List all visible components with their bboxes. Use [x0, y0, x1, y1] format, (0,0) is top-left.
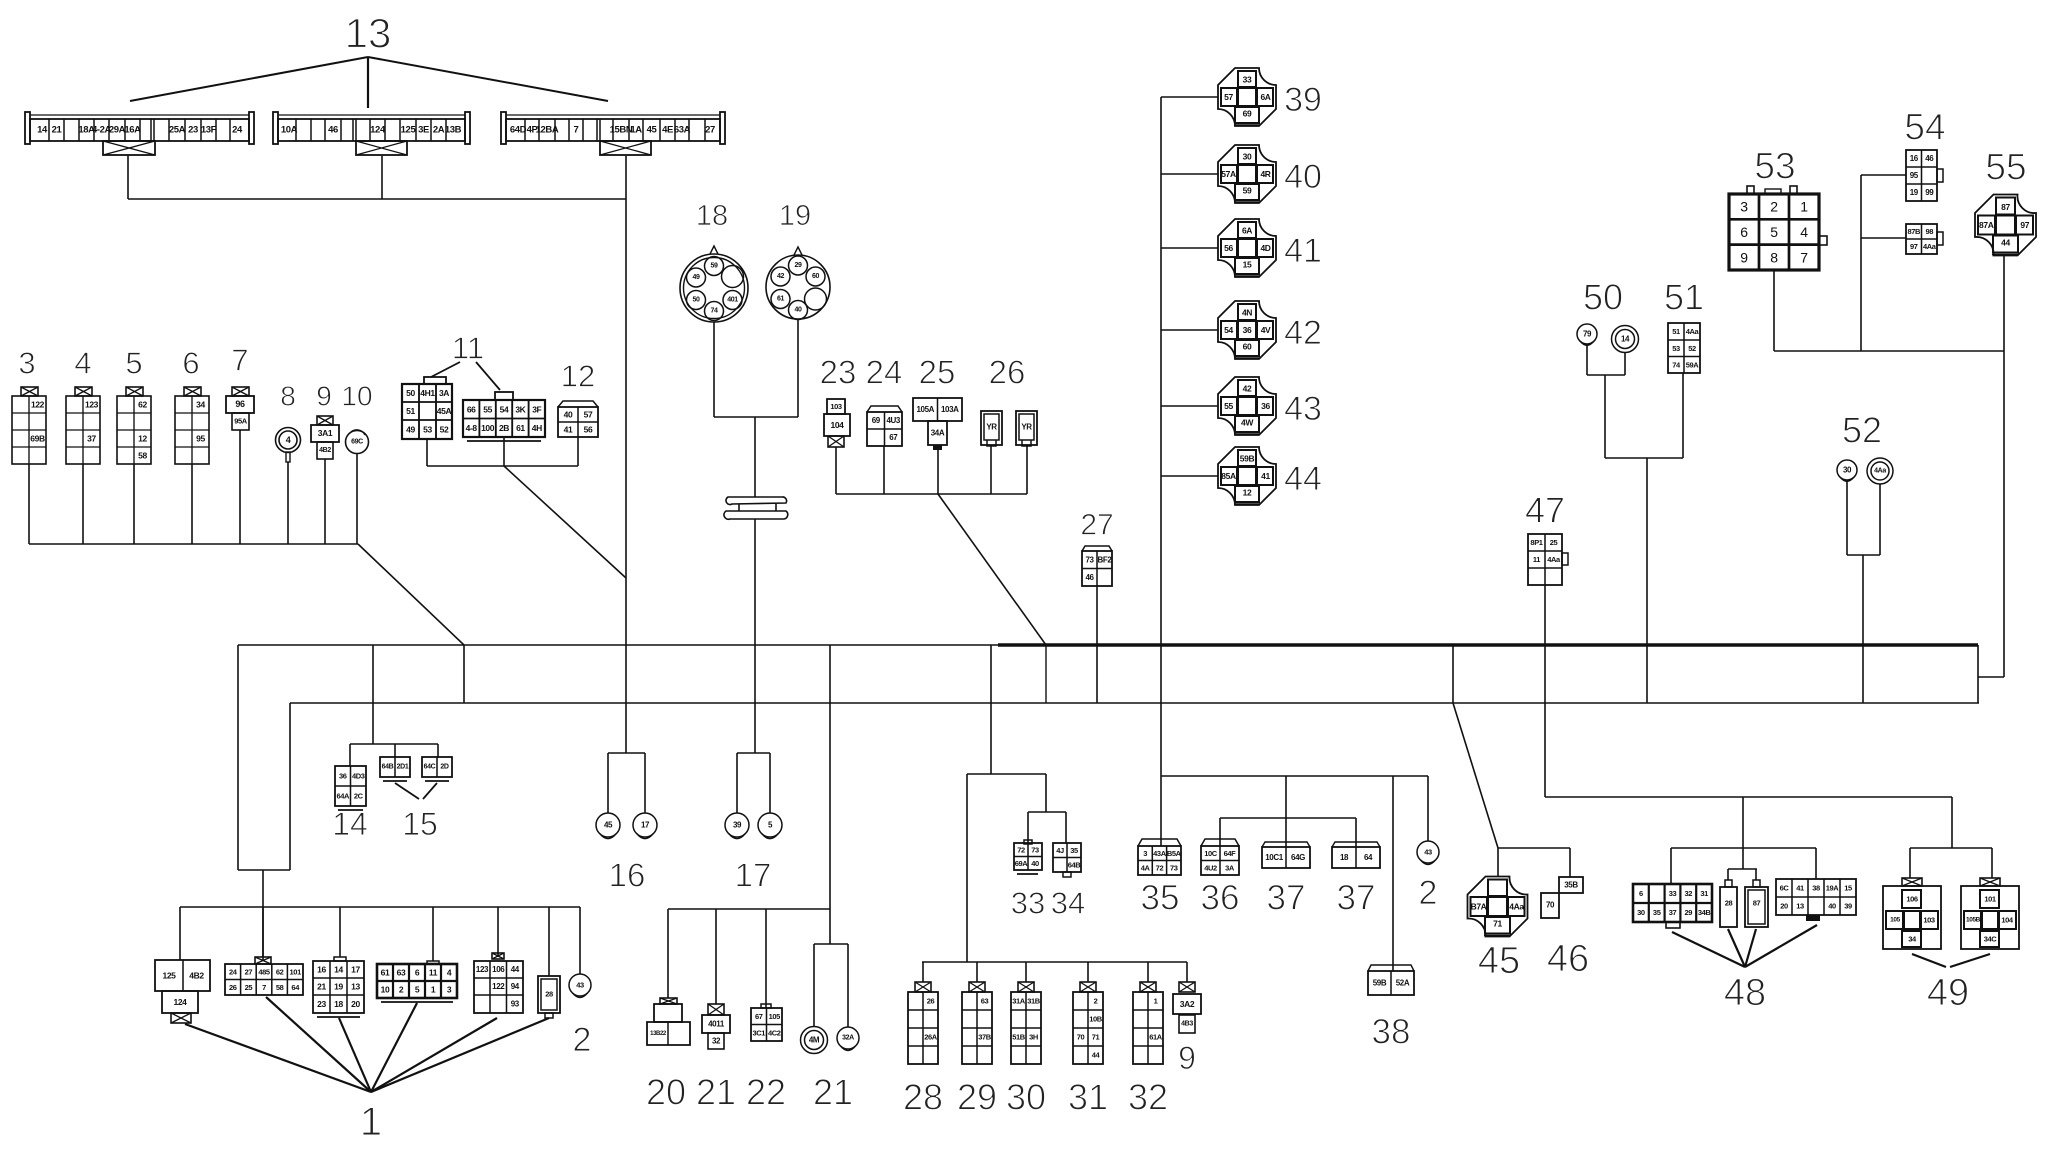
wire 55 to bus: [1978, 676, 2004, 678]
connector 33 label: [1011, 886, 1045, 921]
connector 39 label: [1284, 81, 1322, 119]
connector 9 label: [316, 381, 332, 412]
svg-text:25A: 25A: [169, 125, 186, 136]
svg-text:11: 11: [1533, 555, 1540, 564]
wire item1 feed: [262, 870, 264, 960]
wire 1d drop: [432, 907, 434, 961]
wire 13a drop: [127, 155, 129, 199]
svg-text:34C: 34C: [1984, 935, 1998, 944]
wire 50 drop: [1604, 375, 1606, 458]
wire 52 to bus B: [1862, 555, 1864, 703]
connector 1d: [377, 961, 457, 1002]
svg-text:50: 50: [1583, 277, 1623, 318]
connector 36: [1201, 839, 1239, 875]
connector 34 label: [1051, 886, 1085, 921]
svg-text:69: 69: [1243, 109, 1252, 119]
svg-text:72: 72: [1017, 845, 1025, 854]
svg-text:21: 21: [696, 1072, 736, 1113]
wire 23 drop: [835, 447, 837, 494]
connector 7: [226, 387, 254, 430]
svg-text:3A2: 3A2: [1180, 999, 1195, 1009]
wire 45 drop: [1497, 848, 1499, 877]
svg-text:36: 36: [339, 772, 347, 781]
svg-text:13: 13: [1796, 902, 1804, 911]
wire diagonal 23-26 to bus A: [938, 494, 1046, 645]
wire 28-32 feed: [966, 774, 968, 962]
connector 17 label: [735, 857, 772, 894]
connector 43 label: [1284, 390, 1322, 428]
svg-text:4: 4: [1800, 224, 1808, 240]
svg-text:23: 23: [317, 999, 326, 1009]
svg-text:47: 47: [1525, 490, 1565, 531]
svg-text:12: 12: [1243, 488, 1252, 498]
svg-text:57: 57: [584, 410, 593, 420]
connector 49b: [1961, 878, 2019, 949]
svg-text:11: 11: [429, 968, 438, 978]
svg-text:105B: 105B: [1966, 917, 1981, 924]
wire 13 fan lines: [130, 57, 608, 108]
connector 31 label: [1068, 1077, 1108, 1118]
svg-text:51: 51: [1672, 327, 1680, 336]
wire 39 stub: [1161, 96, 1218, 98]
svg-text:3A: 3A: [1225, 863, 1235, 872]
svg-text:3: 3: [447, 985, 452, 995]
svg-text:124: 124: [370, 125, 386, 136]
svg-text:5: 5: [415, 985, 420, 995]
svg-text:54: 54: [1904, 107, 1945, 148]
wire 44 stub: [1161, 475, 1218, 477]
svg-text:31: 31: [1068, 1077, 1108, 1118]
connector 9: [311, 416, 339, 459]
wire 27 drop: [1096, 586, 1098, 703]
svg-text:58: 58: [138, 451, 147, 461]
wire 36-37 feed: [1285, 776, 1287, 818]
connector 48d: [1776, 879, 1856, 921]
wire bus 23-26: [836, 493, 1027, 495]
svg-text:9: 9: [1740, 249, 1748, 265]
lamp 2 (43): [569, 974, 591, 997]
svg-text:2: 2: [1094, 997, 1098, 1006]
wire 24 drop: [883, 446, 885, 494]
wire 33-34 join: [967, 773, 1046, 775]
connector 48c: [1745, 880, 1768, 927]
svg-text:19A: 19A: [1826, 884, 1840, 893]
connector 16 label: [609, 857, 646, 894]
connector 13a fuse strip: [25, 112, 254, 155]
wire 45-46 bus: [1498, 847, 1570, 849]
lamp 16a: [596, 813, 620, 839]
svg-text:24: 24: [229, 967, 238, 976]
svg-text:51: 51: [1664, 277, 1704, 318]
svg-text:16A: 16A: [124, 125, 141, 136]
svg-text:30: 30: [1637, 908, 1645, 917]
svg-text:53: 53: [1672, 344, 1680, 353]
wire 20 drop: [667, 909, 669, 998]
connector 8: [276, 428, 301, 463]
svg-text:14: 14: [334, 965, 343, 975]
svg-text:45A: 45A: [437, 406, 452, 416]
connector 36 label: [1201, 879, 1240, 918]
connector 6 label: [182, 346, 199, 381]
wire 7 drop: [239, 430, 241, 544]
svg-text:73: 73: [1170, 863, 1178, 872]
wire 49 pointer lines: [1912, 954, 1990, 967]
svg-text:54: 54: [500, 404, 509, 414]
connector 27: [1082, 546, 1112, 586]
wire 48a drop: [1670, 848, 1672, 884]
wire diagonal 11-12 to vertical: [504, 466, 626, 578]
svg-text:37: 37: [1669, 908, 1677, 917]
wire 11-12 bus: [427, 465, 578, 467]
svg-text:14: 14: [37, 125, 48, 136]
svg-text:11: 11: [452, 331, 484, 366]
svg-text:17: 17: [641, 821, 650, 830]
wire 2 drop: [579, 907, 581, 974]
wire 54a lead: [1861, 174, 1906, 176]
wire left U join: [238, 869, 290, 871]
wire 45 diagonal: [1453, 703, 1498, 848]
svg-text:10: 10: [341, 381, 372, 412]
svg-text:52: 52: [1842, 410, 1882, 451]
wire 20-22 feed: [829, 645, 831, 944]
svg-text:31A: 31A: [1012, 997, 1026, 1006]
svg-text:58: 58: [276, 983, 284, 992]
svg-text:43: 43: [576, 981, 584, 990]
svg-text:1: 1: [360, 1100, 382, 1144]
svg-text:123: 123: [476, 965, 489, 974]
svg-text:35: 35: [1070, 846, 1078, 855]
svg-text:4C2: 4C2: [768, 1028, 781, 1037]
connector 19: [766, 247, 830, 320]
connector 41: [1218, 219, 1276, 277]
wire 33-34 split: [1028, 812, 1066, 843]
svg-text:9: 9: [1178, 1040, 1196, 1076]
svg-text:4J: 4J: [1056, 846, 1064, 855]
svg-text:46: 46: [1547, 938, 1589, 980]
svg-text:95: 95: [196, 434, 205, 444]
connector 48b: [1720, 880, 1737, 927]
wire 41 stub: [1161, 247, 1218, 249]
svg-text:69A: 69A: [1015, 859, 1029, 868]
wire 48d drop: [1815, 848, 1817, 879]
svg-text:74: 74: [1672, 360, 1681, 369]
svg-text:24: 24: [232, 125, 243, 136]
connector group 13 label: [345, 10, 392, 57]
lamp 21b-2: [837, 1027, 859, 1050]
wire 49 bus: [1910, 847, 1992, 849]
wire 50-51 join: [1605, 457, 1683, 459]
svg-text:12: 12: [138, 434, 147, 444]
svg-text:13B: 13B: [445, 125, 462, 136]
svg-text:13: 13: [351, 982, 360, 992]
svg-text:95A: 95A: [234, 417, 248, 426]
wire 10 drop: [356, 453, 358, 544]
svg-text:57A: 57A: [1221, 169, 1236, 179]
svg-text:30: 30: [1843, 466, 1852, 475]
wire 28-32 bus: [922, 961, 1187, 963]
svg-text:62: 62: [276, 967, 284, 976]
svg-text:33: 33: [1011, 886, 1045, 921]
connector 21a label: [696, 1072, 736, 1113]
svg-text:34: 34: [1051, 886, 1085, 921]
svg-text:79: 79: [1583, 330, 1592, 339]
svg-text:29: 29: [795, 262, 802, 269]
svg-text:61A: 61A: [1149, 1033, 1163, 1042]
connector 9b label: [1178, 1040, 1196, 1076]
svg-text:12BA: 12BA: [536, 125, 559, 136]
svg-text:2C: 2C: [354, 792, 364, 801]
svg-text:32: 32: [1128, 1077, 1168, 1118]
connector 37b label: [1337, 879, 1376, 918]
svg-text:73: 73: [1085, 555, 1094, 564]
svg-text:3: 3: [1740, 199, 1748, 215]
svg-text:B7A: B7A: [1471, 902, 1487, 912]
svg-text:85A: 85A: [1221, 471, 1236, 481]
connector 30: [1011, 982, 1041, 1064]
svg-text:6A: 6A: [1260, 92, 1270, 102]
connector 20: [647, 998, 690, 1045]
connector 1f: [538, 976, 560, 1018]
svg-text:32A: 32A: [842, 1035, 854, 1042]
svg-text:46: 46: [1925, 154, 1934, 163]
svg-text:100: 100: [481, 423, 495, 433]
wire bus items 3-10: [29, 543, 358, 545]
wire 21a drop: [715, 909, 717, 1004]
connector 11 label: [452, 331, 484, 366]
wire 46 drop: [1569, 848, 1571, 877]
svg-text:48: 48: [1724, 972, 1766, 1014]
connector 48 label: [1724, 972, 1766, 1014]
connector 4 label: [74, 346, 91, 381]
svg-text:43: 43: [1284, 390, 1322, 428]
svg-text:26: 26: [989, 354, 1026, 391]
svg-text:4Aa: 4Aa: [1923, 242, 1937, 251]
svg-text:1: 1: [1800, 199, 1808, 215]
svg-text:13B22: 13B22: [650, 1031, 667, 1037]
svg-text:122: 122: [492, 982, 505, 991]
svg-text:99: 99: [1925, 188, 1934, 197]
svg-text:4: 4: [447, 968, 452, 978]
wire 26b drop: [1026, 446, 1028, 494]
svg-text:3H: 3H: [1029, 1033, 1038, 1042]
wire 48 fan: [1672, 925, 1817, 967]
svg-text:4Aa: 4Aa: [1686, 327, 1700, 336]
wire 5 drop: [133, 464, 135, 544]
svg-text:54: 54: [1224, 325, 1233, 335]
connector 42: [1218, 301, 1276, 359]
wire 35-38 bus: [1161, 775, 1428, 777]
wire junction vertical at 1046: [1045, 645, 1047, 703]
connector 22 label: [746, 1072, 786, 1113]
svg-text:57: 57: [1224, 92, 1233, 102]
svg-text:5: 5: [125, 346, 142, 381]
svg-text:2D1: 2D1: [397, 764, 409, 771]
svg-text:37: 37: [87, 434, 96, 444]
connector 23 label: [820, 354, 857, 391]
svg-text:45: 45: [604, 821, 613, 830]
connector 11b: [463, 392, 545, 441]
svg-text:26: 26: [229, 983, 237, 992]
wire 37a drop: [1285, 818, 1287, 847]
svg-text:44: 44: [1284, 460, 1322, 498]
svg-text:15: 15: [402, 806, 438, 842]
connector 26a: [981, 411, 1002, 446]
wire 40 stub: [1161, 173, 1218, 175]
svg-text:71: 71: [1493, 919, 1502, 929]
svg-text:93: 93: [511, 1000, 520, 1009]
svg-text:55: 55: [1224, 401, 1233, 411]
wire 48 bus: [1671, 847, 1816, 849]
connector 13c fuse strip: [501, 112, 725, 155]
wire 26a drop: [990, 446, 992, 494]
svg-text:18: 18: [696, 200, 728, 232]
svg-text:103: 103: [830, 402, 842, 411]
connector 28 label: [903, 1077, 943, 1118]
connector 7 label: [231, 343, 248, 378]
connector 19 label: [779, 200, 811, 232]
svg-text:40: 40: [1284, 158, 1322, 196]
svg-text:4H1: 4H1: [420, 388, 435, 398]
svg-text:15: 15: [1844, 884, 1852, 893]
svg-text:4Aa: 4Aa: [1547, 555, 1561, 564]
svg-text:32: 32: [1685, 889, 1693, 898]
svg-text:4H: 4H: [532, 423, 542, 433]
svg-text:36: 36: [1261, 401, 1270, 411]
svg-text:4: 4: [74, 346, 91, 381]
connector 40: [1218, 145, 1276, 203]
svg-text:40: 40: [564, 410, 573, 420]
svg-text:61: 61: [516, 423, 525, 433]
wire 13 bus: [128, 198, 626, 200]
svg-text:63: 63: [981, 997, 989, 1006]
wire 16 feed vertical: [625, 199, 627, 753]
connector 51 label: [1664, 277, 1704, 318]
connector 32: [1133, 982, 1163, 1064]
wire 49b drop: [1991, 848, 1993, 878]
svg-text:29: 29: [1685, 908, 1693, 917]
svg-text:4011: 4011: [708, 1020, 725, 1029]
wire 38 drop: [1392, 776, 1394, 971]
wire 43 stub: [1161, 405, 1218, 407]
svg-text:44: 44: [1092, 1051, 1101, 1060]
svg-text:36: 36: [1243, 325, 1252, 335]
svg-text:50: 50: [406, 388, 415, 398]
svg-text:29: 29: [957, 1077, 997, 1118]
wire bus A thin: [238, 644, 1000, 646]
connector 37b: [1332, 842, 1380, 868]
wire 47 bus: [1545, 796, 1952, 798]
svg-text:66: 66: [467, 404, 476, 414]
wire item1 bus: [180, 906, 580, 908]
wire 1 fan: [185, 997, 549, 1092]
wire 35 drop: [1160, 776, 1162, 846]
svg-text:103: 103: [1923, 916, 1935, 925]
connector 52 label: [1842, 410, 1882, 451]
svg-text:27: 27: [1080, 509, 1113, 542]
svg-text:6: 6: [415, 968, 420, 978]
svg-text:8: 8: [1770, 249, 1778, 265]
svg-text:37: 37: [1337, 879, 1376, 918]
svg-text:105: 105: [769, 1012, 781, 1021]
wire 9 drop: [324, 459, 326, 544]
svg-text:64F: 64F: [1224, 849, 1237, 858]
wire bus A thick: [998, 643, 1978, 646]
svg-text:59A: 59A: [1686, 360, 1700, 369]
connector 31: [1073, 982, 1103, 1064]
connector 20 label: [646, 1072, 686, 1113]
svg-text:37: 37: [1267, 879, 1306, 918]
connector 38 label: [1372, 1013, 1411, 1052]
svg-text:7: 7: [262, 983, 266, 992]
svg-text:1A: 1A: [630, 125, 642, 136]
svg-text:35: 35: [1141, 879, 1180, 918]
connector 44: [1218, 447, 1276, 505]
svg-text:BF2: BF2: [1098, 555, 1113, 564]
connector 26b: [1016, 411, 1037, 446]
wire 3 drop: [28, 464, 30, 544]
wire 11 pointer lines: [431, 362, 500, 390]
wire junction vertical at 464: [463, 645, 465, 703]
wire 54b lead: [1861, 237, 1906, 239]
connector 1e: [474, 953, 523, 1013]
connector 49a: [1883, 878, 1941, 949]
svg-text:10: 10: [381, 985, 390, 995]
svg-text:106: 106: [492, 965, 505, 974]
svg-text:69C: 69C: [351, 439, 363, 446]
svg-text:2: 2: [1419, 874, 1438, 912]
connector 37a: [1262, 842, 1310, 868]
svg-text:124: 124: [174, 997, 188, 1007]
connector 30 label: [1006, 1077, 1046, 1118]
svg-text:5: 5: [1770, 224, 1778, 240]
svg-text:51B: 51B: [1012, 1033, 1026, 1042]
svg-text:49: 49: [693, 274, 700, 281]
wire bus right end notch: [1977, 645, 1979, 703]
svg-text:28: 28: [1725, 899, 1733, 908]
connector 47: [1528, 534, 1568, 585]
wire 48 feed: [1742, 797, 1744, 869]
connector 48a: [1633, 884, 1712, 928]
svg-text:25: 25: [245, 983, 253, 992]
connector 9b: [1173, 982, 1201, 1033]
connector 23: [824, 399, 850, 447]
wire 51 drop: [1682, 373, 1684, 458]
svg-text:6: 6: [182, 346, 199, 381]
svg-text:17: 17: [735, 857, 772, 894]
svg-text:12: 12: [561, 359, 595, 394]
svg-text:30: 30: [1243, 152, 1252, 162]
svg-text:60: 60: [1243, 342, 1252, 352]
connector 12: [558, 401, 598, 437]
connector 26 label: [989, 354, 1026, 391]
connector 41 label: [1284, 232, 1322, 270]
svg-text:4N: 4N: [1242, 308, 1252, 318]
svg-text:10C: 10C: [1204, 849, 1218, 858]
svg-text:4M: 4M: [809, 1036, 820, 1045]
svg-text:24: 24: [866, 354, 903, 391]
svg-text:19: 19: [1910, 188, 1919, 197]
svg-text:4-8: 4-8: [466, 423, 478, 433]
svg-text:18: 18: [1340, 853, 1349, 862]
svg-text:8P1: 8P1: [1530, 538, 1542, 547]
svg-text:32: 32: [712, 1037, 721, 1046]
svg-text:105A: 105A: [916, 405, 934, 414]
svg-text:3A1: 3A1: [318, 428, 333, 438]
svg-text:103A: 103A: [941, 405, 959, 414]
svg-text:38: 38: [1372, 1013, 1411, 1052]
svg-text:125: 125: [401, 125, 417, 136]
svg-text:19: 19: [779, 200, 811, 232]
